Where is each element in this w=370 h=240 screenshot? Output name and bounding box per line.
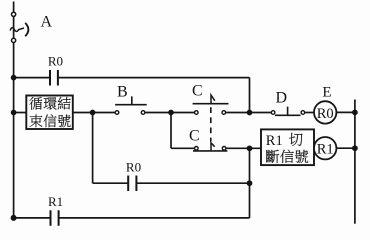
junction: rung2 / rung3 branch [168,110,174,116]
contact R0 bars (lower rung) [128,176,136,192]
rung 2 wire: B to C [145,112,194,114]
svg-text:E: E [322,84,331,100]
left bus [13,2,15,219]
lower R0 rung wire left [93,182,129,184]
svg-text:C: C [192,83,203,100]
contact C upper bar [193,103,229,105]
box R1 cutoff-signal [261,129,314,165]
coil R1 [314,137,336,159]
contact C lower hook [211,143,215,151]
contact C upper terminals [195,111,199,115]
svg-text:A: A [41,13,53,30]
svg-text:R0: R0 [317,106,334,122]
box loop-end-signal [26,96,73,130]
rung 2 wire: D to coil R0 [305,112,314,114]
svg-text:R0: R0 [126,159,141,174]
pushbutton B terminals [115,111,119,115]
junction: lower R0 rung / vertical [247,180,253,186]
rung 1 wire right [58,77,250,79]
svg-text:R1: R1 [48,194,63,209]
rung 2 wire: box to B [73,112,115,114]
junction: left bus / rung2 [11,110,17,116]
contact R1 bars (bottom rung) [51,210,59,226]
junction: rung3 / bottom branch [247,145,253,151]
contact C lower terminals [195,147,199,151]
junction: rung2 / lower R0 branch [90,110,96,116]
bottom rung wire left [14,217,51,219]
box1 text line1 循環結 [30,97,43,110]
lower R0 rung wire right [136,182,249,184]
rung 2 wire: C to D [226,112,272,114]
svg-text:C: C [189,128,200,145]
contact C lower bar [193,150,227,152]
box1 text line2 束信號 [30,115,43,128]
switch A terminal bottom [12,38,16,42]
junction: left bus / rung1 [11,75,17,81]
switch A squiggle [10,28,24,32]
rung 3 wire left [171,147,194,149]
box2 line1 切 [289,133,302,146]
pushbutton B bar [115,96,147,104]
mechanical link dashed [210,107,212,141]
wire rung2 box-junction down to lower R0 rung [92,113,94,184]
junction: left bus / bottom rung [11,215,17,221]
wire coil R0 to right bus [336,111,355,113]
coil R0 [314,101,336,123]
svg-text:R1: R1 [266,133,283,149]
junction: right bus / coil R1 [352,145,358,151]
junction: rung2 / rung1 drop [247,110,253,116]
svg-text:B: B [117,84,128,101]
box2 line2 斷信號 [266,150,279,163]
switch A arc [25,23,28,36]
switch A terminal top [12,12,16,16]
svg-text:D: D [276,90,288,107]
rung 1 wire left [14,77,50,79]
contact R0 bars (rung 1) [50,70,58,86]
wire rung3 down to bottom rung [249,148,251,218]
rung 3 wire: C to box [226,147,261,149]
contact D bar [275,107,301,116]
wire coil R1 to right bus [336,147,355,149]
bottom rung wire right [59,217,250,219]
right bus [354,100,356,224]
junction: right bus / coil R0 [352,110,358,116]
wire rung1 down to rung2 [249,78,251,113]
rung 2 wire: bus to box [14,112,27,114]
wire rung2 junction down to rung3 [170,113,172,149]
svg-text:R1: R1 [317,142,334,158]
contact D terminals [271,111,275,115]
contact C upper hook [211,95,215,104]
svg-text:R0: R0 [48,54,63,69]
